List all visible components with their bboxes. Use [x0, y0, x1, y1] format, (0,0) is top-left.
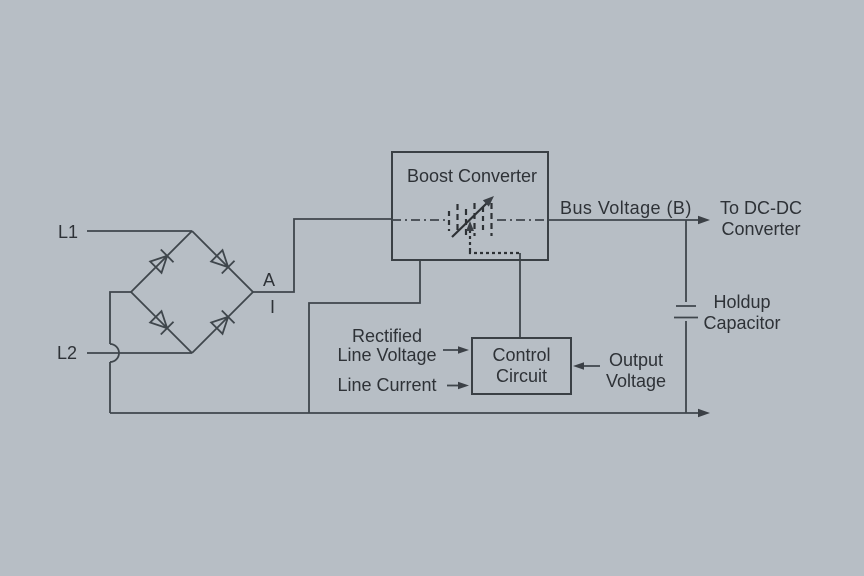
arrowhead bottom rail	[698, 409, 710, 417]
wire L1 lead	[87, 230, 192, 232]
wire bus output	[548, 219, 701, 221]
label to dc-dc converter	[720, 198, 802, 239]
capacitor holdup bottom plate	[674, 317, 698, 319]
wire return drop to rail	[109, 362, 111, 413]
wire boost control line down to control circuit	[519, 253, 521, 338]
label bus voltage	[560, 198, 692, 218]
boost icon bar 2	[456, 204, 458, 233]
svg-text:A: A	[263, 270, 275, 290]
svg-text:Voltage: Voltage	[606, 371, 666, 391]
boost icon bar 4	[473, 203, 475, 236]
wire capacitor to rail	[685, 321, 687, 413]
diode D3 bottom-left arm	[149, 310, 173, 334]
boost icon diagonal arrow shaft	[452, 203, 487, 237]
svg-text:Boost Converter: Boost Converter	[407, 166, 537, 186]
svg-text:Rectified: Rectified	[352, 326, 422, 346]
svg-text:L2: L2	[57, 343, 77, 363]
boost icon bar 3	[465, 209, 467, 238]
arrowhead boost icon diagonal	[483, 196, 494, 207]
capacitor holdup top plate	[676, 305, 696, 307]
wire line current arrow lead	[447, 385, 460, 387]
svg-text:Control: Control	[492, 345, 550, 365]
wire bridge edge bottom-left	[131, 292, 192, 353]
svg-text:Capacitor: Capacitor	[703, 313, 780, 333]
wire L2 lead	[87, 352, 192, 354]
svg-text:To DC-DC: To DC-DC	[720, 198, 802, 218]
label line current	[337, 375, 436, 395]
wire boost bottom to rail	[309, 260, 420, 413]
node A label	[263, 270, 275, 290]
arrowhead boost icon up	[466, 221, 474, 231]
boost icon bar 6	[490, 203, 492, 236]
diode D4 bottom-right arm	[210, 310, 234, 334]
label control circuit	[492, 345, 550, 386]
boost icon chopped line left	[392, 219, 446, 221]
wire bridge edge top-right	[192, 231, 253, 292]
svg-text:Output: Output	[609, 350, 663, 370]
svg-text:Converter: Converter	[721, 219, 800, 239]
box boost converter	[392, 152, 548, 260]
svg-text:Line Voltage: Line Voltage	[337, 345, 436, 365]
wire bus to capacitor	[685, 220, 687, 302]
wire rectified line voltage arrow lead	[443, 349, 460, 351]
label L1	[58, 222, 78, 242]
boost icon bar 5	[482, 207, 484, 230]
label output voltage	[606, 350, 666, 391]
svg-text:L1: L1	[58, 222, 78, 242]
boost icon dotted link down	[470, 251, 520, 253]
boost icon chopped line right	[497, 219, 548, 221]
arrowhead output voltage	[573, 362, 584, 370]
wire hop over L2	[110, 344, 119, 362]
svg-text:Circuit: Circuit	[496, 366, 547, 386]
arrowhead bus output	[698, 216, 710, 224]
current I label	[270, 297, 275, 317]
arrowhead line current	[458, 382, 469, 390]
svg-text:I: I	[270, 297, 275, 317]
label boost converter title	[407, 166, 537, 186]
svg-text:Holdup: Holdup	[713, 292, 770, 312]
label L2	[57, 343, 77, 363]
diode D1 top-left arm	[149, 249, 173, 273]
svg-text:Line Current: Line Current	[337, 375, 436, 395]
box control circuit	[472, 338, 571, 394]
svg-text:Bus Voltage (B): Bus Voltage (B)	[560, 198, 692, 218]
wire bridge edge top-left	[131, 231, 192, 292]
wire bridge edge bottom-right	[192, 292, 253, 353]
label rectified line voltage	[337, 326, 436, 365]
wire output voltage arrow lead	[582, 365, 600, 367]
wire left vertex to return drop	[110, 292, 131, 344]
wire node A to boost input	[253, 219, 392, 292]
wire bottom rail	[110, 412, 702, 414]
boost icon bar 1	[448, 211, 450, 231]
label holdup capacitor	[703, 292, 780, 333]
diode D2 top-right arm	[210, 249, 234, 273]
arrowhead rectified line voltage	[458, 346, 469, 354]
boost icon up arrow shaft	[469, 230, 471, 251]
